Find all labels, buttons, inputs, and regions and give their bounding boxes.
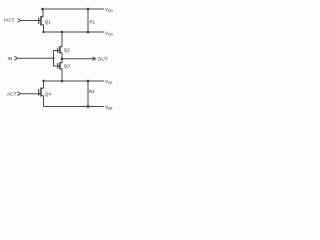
wire ACT to Q4 gate [21,93,39,95]
junction Q2 drain / rail B [61,31,64,34]
arrow Q1 gate [38,19,41,22]
svg-text:Q1: Q1 [45,20,52,25]
svg-text:R1: R1 [90,20,96,25]
junction R1 top / rail A [87,8,90,11]
junction IN / gate bus [52,57,54,59]
svg-text:/ACT: /ACT [4,18,15,23]
wire rail C (third rail) [44,80,105,82]
svg-text:VSS: VSS [105,79,112,85]
junction Q4 drain / rail C [42,80,44,82]
resistor R2 [87,81,89,107]
wire OUT [62,58,96,60]
junction Q1 drain / rail A [41,8,44,11]
wire IN to gate bus [18,57,54,59]
junction R2 bottom / rail D [87,105,90,108]
svg-text:Q2: Q2 [64,48,71,53]
wire /ACT to Q1 gate [21,20,39,22]
wire bus to Q3 gate [54,65,58,67]
resistor R1 [87,9,89,32]
arrow Q3 gate [57,65,60,68]
svg-text:Q3: Q3 [64,64,71,69]
transistor Q2 [58,32,62,59]
junction R1 bottom / rail B [87,31,90,34]
transistor Q1 [39,9,44,32]
svg-text:OUT: OUT [98,56,108,62]
wire rail A (top supply rail) [43,8,105,10]
input port chevron IN [15,56,18,60]
svg-text:IN: IN [8,56,13,62]
svg-text:R2: R2 [89,89,95,94]
junction R2 top / rail C [87,80,90,83]
transistor Q3 [58,59,62,81]
junction Q3 source / rail C [61,80,64,83]
input port chevron /ACT [18,19,21,23]
svg-text:VDD: VDD [105,7,113,13]
svg-text:VBB: VBB [105,104,112,110]
svg-text:ACT: ACT [7,92,17,98]
junction OUT node [61,57,64,60]
arrow Q4 gate [38,92,41,95]
output arrowhead [93,57,96,61]
wire bus to Q2 gate [54,50,58,52]
arrow Q2 gate [57,49,60,52]
svg-text:Q4: Q4 [45,92,52,97]
svg-text:VGG: VGG [105,31,114,37]
wire rail D (bottom rail) [44,106,105,108]
junction Q1 source / rail B [42,31,44,33]
wire gate bus Q2/Q3 [53,51,55,67]
input port chevron ACT [18,92,21,96]
wire rail B (second rail) [44,31,105,33]
transistor Q4 [39,81,44,107]
